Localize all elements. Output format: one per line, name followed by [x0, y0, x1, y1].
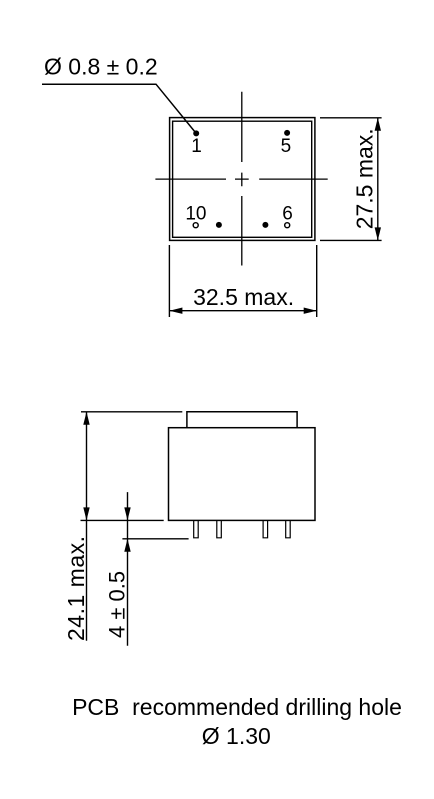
svg-text:24.1 max.: 24.1 max. — [63, 536, 89, 642]
bottom right pad dot — [262, 222, 268, 228]
pin tip extension line — [122, 538, 188, 540]
arrow down 4 — [124, 507, 130, 520]
svg-text:4 ± 0.5: 4 ± 0.5 — [104, 571, 129, 638]
svg-text:5: 5 — [281, 136, 292, 157]
arrow up 27.5 — [375, 118, 381, 131]
vertical center line — [241, 92, 243, 266]
height dimension 27.5 max extension lines — [320, 118, 382, 241]
pin 6 hole circle — [285, 223, 290, 228]
arrow down 24.1 — [83, 507, 89, 520]
seating plane extension line — [81, 519, 164, 521]
arrow down 27.5 — [375, 227, 381, 240]
side pin 4 — [286, 520, 291, 537]
side view body — [169, 428, 316, 521]
bottom left pad dot — [216, 222, 222, 228]
side pin 2 — [217, 520, 222, 537]
svg-text:1: 1 — [191, 136, 202, 157]
svg-text:27.5 max.: 27.5 max. — [351, 128, 377, 229]
side view cover lid — [187, 412, 297, 428]
top view outer case outline — [170, 118, 315, 241]
svg-text:10: 10 — [185, 204, 206, 225]
pin 10 hole circle — [193, 223, 198, 228]
svg-text:32.5 max.: 32.5 max. — [193, 284, 294, 310]
width dimension 32.5 max extension lines — [169, 245, 316, 317]
svg-text:PCB recommended drilling hole: PCB recommended drilling hole — [72, 694, 402, 720]
arrow up 24.1 — [83, 412, 89, 425]
arrow left 32.5 — [169, 308, 182, 314]
svg-text:Ø 1.30: Ø 1.30 — [202, 723, 271, 749]
pin length dimension 4 ± 0.5 line — [127, 492, 129, 646]
svg-text:6: 6 — [282, 204, 293, 225]
horizontal center line — [155, 178, 327, 180]
pin 5 pad dot — [284, 130, 290, 136]
svg-text:Ø 0.8 ± 0.2: Ø 0.8 ± 0.2 — [44, 54, 158, 80]
height dimension 24.1 max dimension line — [86, 412, 88, 641]
width dimension 32.5 max dimension line — [169, 310, 316, 312]
arrow right 32.5 — [304, 308, 317, 314]
arrow up 4 — [124, 539, 130, 552]
side pin 1 — [194, 520, 199, 537]
height dimension 27.5 max dimension line — [377, 118, 379, 241]
side pin 3 — [263, 520, 268, 537]
height dimension 24.1 max extension line top — [81, 411, 182, 413]
top view inner case outline — [173, 121, 312, 237]
leader line to pin 1 — [42, 84, 196, 133]
pin 1 pad dot — [193, 130, 199, 136]
